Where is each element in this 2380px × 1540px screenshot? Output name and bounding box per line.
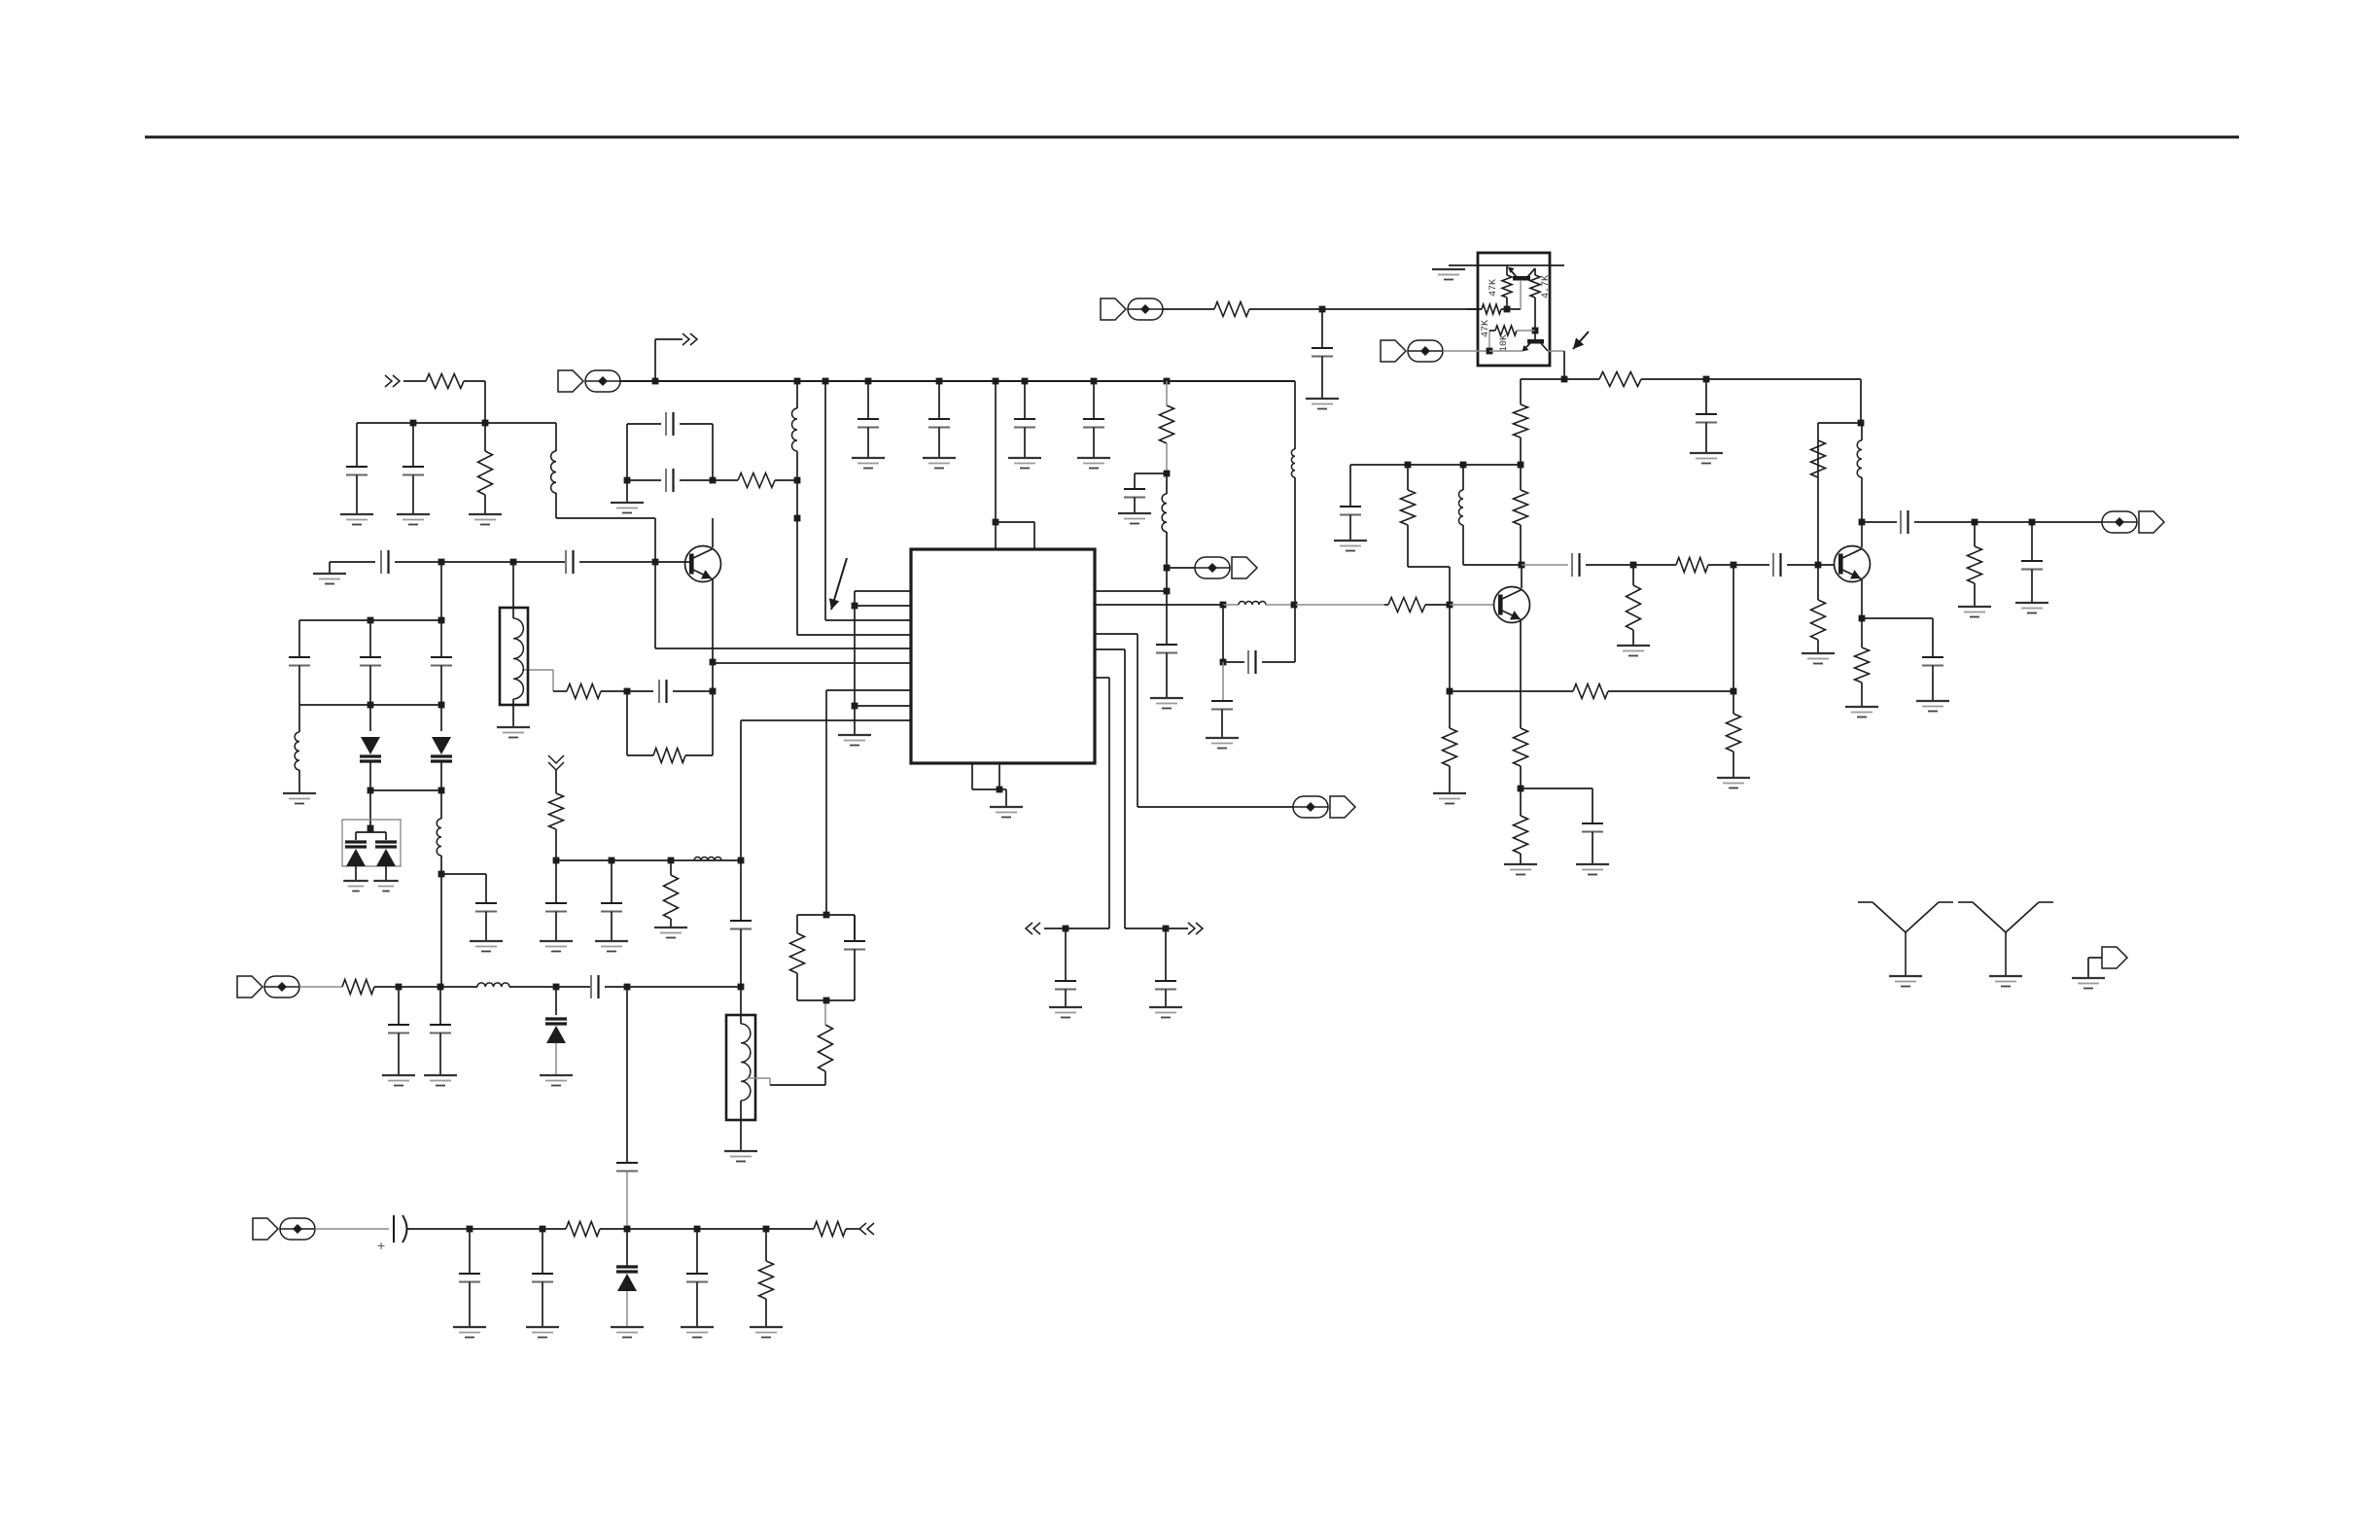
wire [600,1228,627,1230]
wire [1488,331,1490,351]
varactor D5 [545,1019,567,1043]
wire [1466,308,1482,310]
wire [796,973,798,1000]
node rail A [357,422,556,424]
wire [484,381,486,423]
wire [1501,308,1521,310]
junction [553,857,560,864]
ground [1802,653,1835,664]
junction [1859,615,1866,622]
ground [1889,976,1922,987]
wire [712,691,714,755]
wire [685,754,713,756]
connector J1 (9.3V supply) [558,370,620,392]
junction [1164,565,1171,572]
wire [1974,522,1976,546]
emitter wire [712,579,714,662]
ground [838,735,871,746]
capacitor C2 [402,423,424,514]
ground [923,458,956,469]
resistor R32 [1968,546,1982,583]
junction [2029,519,2036,526]
wire [2088,957,2102,959]
resistor R2 [478,451,493,495]
wire [1450,604,1493,606]
svg-text:+: + [377,1238,385,1253]
IC top pin lead [1033,522,1035,549]
capacitor C3 [666,412,674,436]
ground [540,1075,573,1086]
wire [854,915,856,941]
junction [1319,306,1326,313]
arrow from sheet 3 [1026,923,1040,934]
wire [1249,308,1322,310]
wire [440,705,442,731]
collector wire [1521,565,1522,588]
wire [670,860,672,875]
wire [1137,806,1293,808]
wire [1125,927,1166,929]
wire [996,521,1034,523]
wire [1974,583,1976,607]
capacitor C41 [532,1229,553,1327]
junction [467,1226,473,1233]
ground [1306,399,1339,409]
wire [440,856,442,987]
junction [438,787,445,794]
polarized capacitor C39 [377,1215,407,1253]
resistor R33 [566,1222,600,1237]
resistor R18 [1514,404,1528,437]
wire [440,562,442,620]
ground [382,1075,415,1086]
wire [1817,640,1819,653]
ground [313,574,346,584]
resistor R27 [1676,558,1708,573]
junction [367,787,374,794]
wire [1384,604,1388,606]
wire [513,561,566,563]
base line [330,561,375,563]
ground [1617,646,1650,656]
IC U1 [911,549,1095,763]
wire [441,873,486,875]
wire [1861,423,1863,440]
ground [1150,698,1183,709]
diode D4 [375,842,397,866]
wire [1266,604,1294,606]
junction [852,603,858,610]
capacitor C12 [388,987,409,1075]
wire [1137,634,1138,807]
ground [1118,513,1151,524]
junction [1504,306,1511,313]
junction [624,688,631,695]
IC pin 1 lead [855,590,911,592]
capacitor C1 [346,423,367,514]
wire [1522,564,1568,566]
capacitor C9 [360,657,381,705]
wire [654,339,656,381]
wire [1608,690,1733,692]
wire [627,479,661,481]
wire [1449,264,1564,266]
capacitor C4 [666,469,674,492]
label 47K [1488,279,1499,297]
junction [794,515,801,522]
wire [796,480,798,518]
capacitor C21 (bus decoupling) [928,381,950,458]
capacitor C6 [566,550,574,574]
capacitor C40 [459,1229,480,1327]
resistor R25 [1573,684,1608,699]
wire [601,690,627,692]
transistor Q3 [1835,546,1871,582]
wire [369,761,371,790]
adjust arrow [1573,332,1589,349]
wire [369,828,371,832]
Q4 collector [1527,268,1535,277]
wire [1861,477,1863,522]
wire [854,706,856,735]
IC pin 2 lead [855,605,911,607]
wire [1450,690,1573,692]
svg-text:47K: 47K [1488,279,1499,297]
capacitor C30 [1312,309,1333,399]
wire [1520,379,1522,404]
wire [1520,280,1522,309]
wire [1732,691,1734,714]
wire [1294,604,1384,606]
ground [750,1327,783,1338]
wire [1108,678,1110,928]
junction [438,871,445,878]
wire [1564,378,1599,380]
wire [1534,297,1536,331]
ground [1576,864,1609,875]
junction [1091,378,1098,385]
ground [340,514,373,525]
wire [369,620,371,657]
ground [1845,707,1878,717]
capacitor C16 [545,860,567,941]
wire [1407,465,1409,490]
capacitor C25 [1156,591,1177,698]
wire [522,669,553,671]
IC bottom pin lead [998,763,1000,789]
arrow to sheet 3 [1188,923,1203,934]
wire [1586,564,1633,566]
capacitor C31 [1696,379,1717,453]
junction [993,378,999,385]
capacitor C18 [730,860,752,987]
resistor R1 [426,374,464,389]
wire [769,1078,771,1085]
junction [1518,786,1524,792]
junction [652,559,659,566]
junction [1858,420,1865,427]
capacitor C8 [289,657,310,705]
transistor Q2 [1494,587,1530,623]
wire [440,986,477,988]
Q4 emitter [1509,268,1517,277]
wire [1506,265,1508,275]
wire [627,986,741,988]
resistor R13 47K [1502,275,1512,297]
varactor D2 [431,737,452,761]
junction [510,559,517,566]
junction [1630,562,1637,569]
ground [470,941,503,952]
wire [1425,604,1450,606]
junction [852,703,858,710]
label 47K [1481,320,1491,337]
junction [710,659,717,666]
arrow to sheet 4 [859,1223,874,1235]
wire [1294,381,1296,449]
junction [438,559,445,566]
connector J9 (audio in) [253,1218,315,1240]
wire [403,380,426,382]
ground [1433,793,1466,804]
inductor L8 [1239,602,1266,606]
resistor R3 [738,473,775,488]
junction [624,984,631,991]
ground [453,1327,486,1338]
IF line [556,859,741,861]
wire [1641,378,1706,380]
Q5 collector [1541,343,1548,351]
shielded inductor T2 box [726,1015,755,1120]
wire [395,561,441,563]
wire [1449,691,1451,728]
resistor R29 [1811,440,1826,477]
junction [1518,462,1524,469]
wire [1787,564,1834,566]
resistor R19 [1401,490,1416,525]
ground [1717,778,1750,788]
wire [299,986,342,988]
wire [1449,766,1451,793]
wire [670,919,672,927]
wire [995,381,997,522]
junction [738,984,745,991]
wire [1044,927,1066,929]
wire [556,986,591,988]
wire [374,986,399,988]
resistor R26 [1627,585,1641,630]
wire [1262,661,1295,663]
junction [936,378,943,385]
junction [738,857,745,864]
wire [1862,521,1897,523]
wire [1124,649,1126,928]
resistor R4 [653,749,685,763]
IC pin 5 lead [655,647,911,649]
inductor L3 [295,732,299,770]
junction [1859,519,1866,526]
wire [1818,422,1861,424]
wire [2032,521,2102,523]
wire [680,423,713,425]
wire [1517,330,1535,332]
collector wire [712,518,714,547]
wire [796,915,798,933]
wire [824,1000,826,1025]
junction [1731,688,1737,695]
IC pin R2 line [1095,604,1223,606]
wire [555,1043,557,1075]
capacitor C20 (bus decoupling) [857,381,879,458]
junction [1519,562,1525,569]
wire [355,832,357,840]
ground [397,514,430,525]
junction [1972,519,1978,526]
ground [724,1151,757,1162]
wire [1462,525,1464,565]
capacitor C13 [430,987,451,1075]
resistor R9 [819,1025,833,1071]
wire [766,1228,814,1230]
Q5 emitter [1523,343,1530,350]
Q4 emitter arrow [1508,267,1515,274]
resistor R35 [814,1222,846,1237]
junction [993,519,999,526]
wire [1520,854,1522,864]
resistor R11 [1160,405,1174,443]
junction [609,857,615,864]
wire [605,986,627,988]
IC pin 6 lead [713,662,911,664]
wire [315,1228,389,1230]
IC top pin lead [995,522,997,549]
inductor L9 [1291,449,1295,477]
emitter wire [1520,620,1522,728]
wire [1521,378,1564,380]
wire [627,754,653,756]
wire [627,690,653,692]
wire [1462,465,1464,490]
resistor R5 [567,684,601,699]
wire [1633,564,1676,566]
wire [1449,567,1451,605]
Q5 emitter arrow [1522,345,1529,352]
capacitor C34 [1572,553,1580,577]
junction [624,477,631,484]
wire [1294,605,1296,662]
wire [1407,525,1409,567]
wire [654,518,656,562]
arrow to sheet 2 [682,333,697,345]
wire [369,790,371,828]
wire [369,705,371,731]
wire [484,495,486,514]
wire [553,690,567,692]
wire [1632,630,1634,646]
resistor R15 4.7K [1530,275,1540,297]
diode pair box [342,820,401,866]
wire [509,986,556,988]
junction [1447,602,1453,609]
ground [343,881,368,892]
wire [1975,521,2032,523]
wire [627,1228,697,1230]
diode D6 [616,1267,638,1291]
ground [681,1327,714,1338]
wire [797,914,855,916]
wire [1592,788,1593,823]
junction [763,1226,770,1233]
wire [1506,297,1508,309]
capacitor C23 (bus decoupling) [1083,381,1104,458]
connector J6 [1381,340,1443,362]
transistor Q1 [685,546,721,582]
capacitor C7 [659,680,667,703]
ground [1916,701,1949,712]
ground [1690,453,1723,464]
wire [555,829,557,860]
wire [1408,566,1450,568]
wire [796,451,798,480]
IC pin R6 lead [1095,677,1109,679]
wire [1489,350,1522,352]
junction [1022,378,1029,385]
svg-text:10K: 10K [1499,334,1510,352]
resistor R22 [1514,728,1528,766]
tap wire [747,1077,770,1079]
wire [1166,443,1168,473]
wire [1005,789,1007,807]
junction [794,477,801,484]
wire [626,1229,628,1267]
wire [440,620,442,657]
wire [796,518,798,635]
inductor L2 [792,408,798,451]
resistor R20 [1514,490,1528,525]
IC bottom pin lead [971,763,973,789]
wire [385,866,387,881]
transistor Q5 bar [1527,339,1544,344]
junction [710,688,717,695]
wire [556,517,655,519]
ground [2015,603,2048,613]
IC pin 4 lead [797,634,911,636]
resistor R24 [1443,728,1457,766]
wire [485,874,487,903]
collector wire [1861,522,1863,547]
ground [1334,541,1367,551]
wire [1322,308,1482,310]
junction [624,1226,631,1233]
wire [512,562,514,618]
connector J7 (TX out) [2102,511,2164,533]
wire [1520,525,1522,566]
resistor R34 [759,1261,774,1299]
wire [740,987,742,1015]
wire [797,999,855,1001]
wire [825,690,827,915]
wire [627,423,661,425]
ground [1149,1007,1182,1018]
junction [367,825,374,832]
wire [1914,521,1975,523]
inductor L4 [437,819,441,856]
wire [1163,308,1214,310]
ground [373,881,399,892]
wire [399,986,440,988]
resistor R7 [549,793,564,829]
ground [1432,269,1465,280]
